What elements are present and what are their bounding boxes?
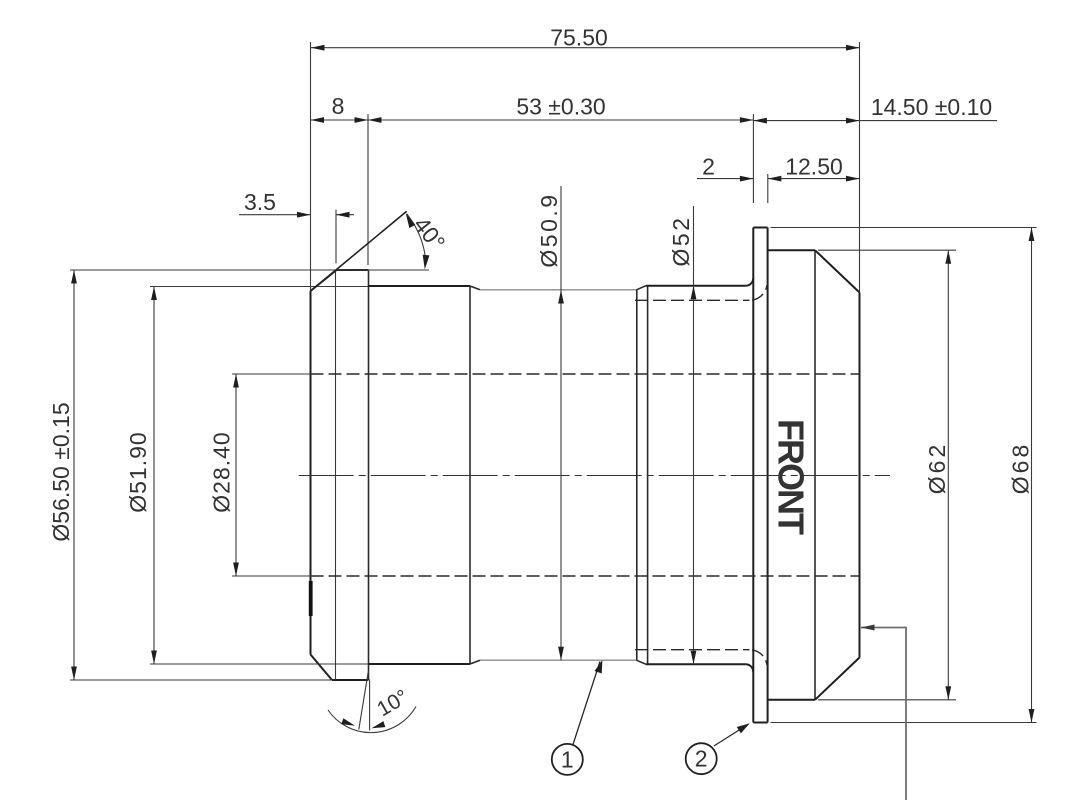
HIDDEN LINES: [311, 285, 860, 665]
dimension dia51.90: [153, 287, 155, 665]
dimension 14.50 +-0.10: [753, 120, 997, 122]
section A top edge (dia 51.90): [369, 285, 471, 287]
dimension 3.5: [239, 214, 354, 216]
extension line x=336 chamfer: [335, 210, 337, 264]
svg-text:8: 8: [332, 93, 345, 119]
bore dia 28.40 hidden bottom: [311, 575, 860, 577]
front face: [859, 293, 861, 658]
front chamfer bottom: [815, 658, 860, 700]
svg-text:75.50: 75.50: [550, 25, 608, 51]
section B top edge (dia 50.9): [480, 289, 637, 291]
dimension dia50.9: [560, 186, 562, 660]
balloon 1: [552, 744, 583, 775]
extension line y=722.5 dia68 bottom: [771, 722, 1037, 724]
axis centerline: [299, 475, 890, 477]
section C top edge (dia 52): [646, 285, 746, 287]
chamfer A-B top: [470, 286, 480, 290]
extension line left face x=310.5: [310, 42, 312, 291]
extension line y=699.8 dia62 bottom: [818, 699, 956, 701]
section B bottom edge: [480, 659, 637, 661]
fillet top to flange lip: [746, 278, 754, 286]
extension line y=576 bore bottom: [232, 575, 311, 577]
collar bottom edge: [332, 679, 369, 681]
flange lip top edge (dia 68): [753, 227, 767, 229]
extension line y=664 dia51.90 bottom: [150, 663, 368, 665]
svg-text:Ø52: Ø52: [668, 216, 694, 267]
thread relief bar on left face: [309, 581, 313, 616]
collar top edge (dia 56.50): [337, 269, 369, 271]
section C bottom edge: [646, 663, 746, 665]
svg-text:3.5: 3.5: [244, 189, 276, 215]
step edge circle x=636.8: [636, 290, 638, 660]
dimension 53 +-0.30: [368, 119, 753, 121]
extension line x=368: [367, 114, 369, 265]
chamfer edge circle x=815: [814, 250, 816, 700]
dimension 8: [311, 119, 369, 121]
10deg slanted construction line: [359, 672, 368, 730]
hidden relief bottom under dia52: [635, 650, 767, 665]
dimension dia68: [1031, 228, 1033, 723]
BALLOONS: [552, 625, 906, 800]
balloon 2: [686, 743, 717, 774]
svg-text:Ø68: Ø68: [1008, 442, 1034, 494]
svg-text:12.50: 12.50: [785, 154, 843, 180]
CENTERLINE: [299, 475, 890, 477]
dimension dia28.40: [235, 374, 237, 576]
dimension 12.50: [768, 178, 860, 180]
svg-text:FRONT: FRONT: [771, 419, 812, 535]
chamfer bottom-left: [311, 655, 333, 681]
svg-text:Ø28.40: Ø28.40: [209, 431, 235, 512]
flange lip right face: [767, 228, 769, 723]
bore dia 28.40 hidden top: [311, 373, 860, 375]
extension line x=753.4: [752, 114, 754, 203]
flange lip left face: [752, 228, 754, 723]
hidden relief top under dia52: [635, 285, 767, 300]
PART OUTLINE: [309, 228, 860, 723]
flange lip bottom edge: [753, 722, 767, 724]
chamfer top-left 40deg: [311, 270, 337, 291]
fillet bottom to flange lip: [746, 664, 754, 672]
chamfer B-C bottom: [637, 660, 647, 664]
10deg angle arc: [328, 707, 416, 733]
collar right face: [368, 270, 370, 680]
40deg angle arc: [407, 214, 426, 263]
svg-text:53 ±0.30: 53 ±0.30: [516, 94, 605, 120]
dimension 2: [697, 178, 753, 180]
balloon 1 leader: [572, 662, 600, 748]
step edge circle x=647.6: [647, 286, 649, 665]
section A bottom edge: [369, 663, 471, 665]
svg-text:1: 1: [561, 746, 574, 772]
svg-text:Ø56.50 ±0.15: Ø56.50 ±0.15: [48, 402, 74, 541]
dimension dia62: [947, 250, 949, 700]
40deg chamfer construction line: [311, 211, 407, 291]
extension line y=374 bore top: [232, 373, 311, 375]
balloon 2 leader: [714, 725, 747, 746]
svg-text:2: 2: [702, 154, 715, 180]
dimension 75.50: [311, 47, 860, 49]
chamfer A-B bottom: [470, 660, 480, 664]
front chamfer top: [815, 250, 860, 292]
svg-text:Ø50.9: Ø50.9: [536, 192, 562, 267]
10deg vertical reference line: [369, 680, 371, 731]
extension line front face x=859.5: [859, 42, 861, 293]
svg-text:2: 2: [695, 746, 708, 772]
chamfer B-C top: [637, 286, 647, 290]
extension line y=680 dia56.5 bottom: [70, 679, 332, 681]
extension line y=250.2 dia62 top: [818, 249, 956, 251]
extension line y=227.5 dia68 top: [771, 227, 1037, 229]
svg-text:Ø51.90: Ø51.90: [125, 431, 151, 512]
dimension dia56.50 +-0.15: [73, 270, 75, 680]
step edge circle x=470: [469, 286, 471, 664]
extension line y=270 dia56.5 top / 40deg reference: [70, 269, 429, 271]
dimension dia52: [693, 206, 695, 664]
dia62 top edge: [768, 249, 815, 251]
svg-text:Ø62: Ø62: [924, 442, 950, 494]
extension line y=286.5 dia51.90 top: [150, 286, 368, 288]
left face: [310, 291, 312, 655]
svg-text:14.50 ±0.10: 14.50 ±0.10: [871, 94, 992, 120]
leader to edge note (gray, exits bottom): [861, 628, 906, 800]
extension line x=767.8: [767, 174, 769, 203]
dia62 bottom edge: [768, 699, 815, 701]
chamfer cone edge circle x=335.5: [335, 270, 337, 680]
